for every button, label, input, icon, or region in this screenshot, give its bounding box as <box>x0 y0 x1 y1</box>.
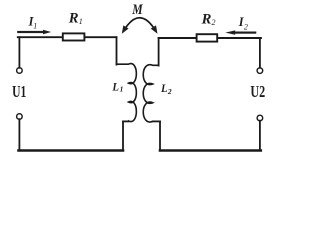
svg-text:U2: U2 <box>250 82 265 101</box>
svg-text:2: 2 <box>167 87 172 96</box>
label L1 <box>112 80 124 94</box>
wire: left top horizontal <box>18 36 117 38</box>
label I2 <box>238 15 248 31</box>
inductor L2 <box>143 65 158 122</box>
current arrow I1 <box>17 30 51 34</box>
svg-text:M: M <box>131 2 143 18</box>
wire: right port upper vertical <box>259 38 261 68</box>
svg-text:1: 1 <box>33 22 37 31</box>
svg-text:U1: U1 <box>12 82 26 101</box>
label R2 <box>201 11 216 27</box>
svg-text:2: 2 <box>212 18 216 27</box>
current arrow I2 <box>225 30 256 34</box>
wire: left port lower vertical <box>18 119 20 150</box>
resistor R2 <box>197 34 218 41</box>
wire: right loop upper-left vertical <box>158 38 160 66</box>
wire: left loop upper-right vertical <box>116 37 118 64</box>
svg-text:L: L <box>112 80 119 94</box>
terminal: U2 top <box>257 68 263 74</box>
wire: right port lower vertical <box>259 121 261 151</box>
label L2 <box>160 81 172 96</box>
svg-text:R: R <box>68 11 79 27</box>
wire: left port upper vertical <box>18 37 20 68</box>
svg-text:1: 1 <box>120 85 124 94</box>
mutual inductance arrow M <box>124 18 156 31</box>
resistor R1 <box>63 33 85 40</box>
label I1 <box>28 14 38 30</box>
svg-text:2: 2 <box>244 23 248 32</box>
svg-text:L: L <box>160 81 167 95</box>
wire: jog to L2 bottom <box>153 120 160 122</box>
terminal: U2 bottom <box>257 115 263 121</box>
wire: jog to L1 bottom <box>123 120 129 122</box>
wire: left bottom horizontal <box>19 149 124 152</box>
svg-text:R: R <box>201 11 212 27</box>
wire: left loop lower-right vertical <box>122 121 124 150</box>
wire: right loop lower-left vertical <box>159 121 161 150</box>
terminal: U1 bottom <box>17 114 23 120</box>
terminal: U1 top <box>17 68 23 74</box>
wire: right bottom horizontal <box>160 149 261 152</box>
wire: right top horizontal <box>159 37 261 39</box>
label R1 <box>68 11 83 27</box>
svg-text:1: 1 <box>79 17 83 26</box>
inductor L1 <box>117 64 137 122</box>
